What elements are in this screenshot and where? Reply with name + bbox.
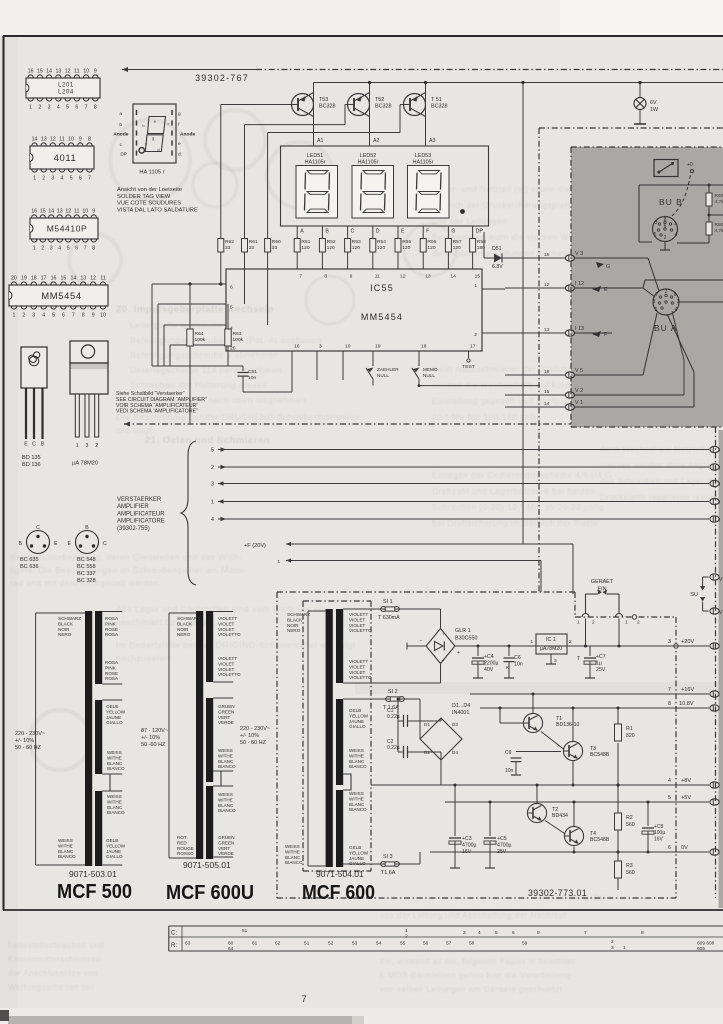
svg-text:R60: R60 [272, 239, 281, 245]
svg-text:51: 51 [304, 941, 310, 947]
svg-text:c: c [145, 141, 147, 146]
svg-text:560: 560 [626, 822, 635, 828]
svg-text:13: 13 [57, 209, 63, 215]
svg-text:61: 61 [252, 941, 258, 947]
svg-text:Einstellung geprueft und na: Einstellung geprueft und nachjustiert. [432, 396, 588, 406]
svg-text:+F (20V): +F (20V) [244, 543, 266, 549]
svg-text:VIOLET: VIOLET [218, 667, 235, 672]
svg-text:NERO: NERO [177, 632, 191, 637]
svg-text:SCHWARZ: SCHWARZ [58, 616, 81, 621]
svg-text:33: 33 [225, 245, 231, 251]
svg-text:VEDI SCHEMA “AMPLIFICATORE”: VEDI SCHEMA “AMPLIFICATORE” [116, 409, 198, 415]
svg-text:BC 328: BC 328 [77, 578, 96, 584]
svg-text:64: 64 [228, 946, 234, 952]
svg-text:+C4: +C4 [484, 654, 494, 660]
svg-text:8: 8 [82, 313, 85, 319]
svg-text:120: 120 [327, 245, 335, 251]
svg-text:C: C [32, 442, 36, 448]
svg-text:R1: R1 [626, 726, 633, 732]
svg-text:R53: R53 [352, 239, 361, 245]
svg-text:YELLOW: YELLOW [106, 843, 126, 848]
svg-text:A2: A2 [373, 138, 379, 144]
svg-text:25V: 25V [596, 667, 606, 673]
svg-text:5: 5 [211, 448, 214, 454]
svg-text:50 - 60 HZ: 50 - 60 HZ [240, 740, 267, 746]
svg-text:1: 1 [623, 945, 626, 951]
svg-text:f. MOS-Bausteinen gelten fu: f. MOS-Bausteinen gelten fuer die Verarb… [380, 971, 571, 980]
svg-text:20: 20 [11, 276, 17, 282]
svg-text:tigste: Die Beschriftungen i: tigste: Die Beschriftungen im Schraubenz… [10, 565, 248, 575]
svg-text:T 51: T 51 [431, 97, 442, 103]
svg-text:I 12: I 12 [575, 281, 584, 287]
svg-text:MCF 600: MCF 600 [302, 882, 375, 904]
svg-text:V 1: V 1 [575, 400, 583, 406]
svg-text:VERT: VERT [218, 715, 230, 720]
svg-text:I: I [719, 465, 720, 470]
svg-text:YELLOW: YELLOW [349, 850, 369, 855]
svg-text:33: 33 [249, 245, 255, 251]
svg-text:RED: RED [177, 840, 187, 845]
svg-text:59: 59 [522, 941, 528, 947]
svg-text:VIOLETTO: VIOLETTO [349, 675, 372, 680]
svg-text:R62: R62 [225, 239, 234, 245]
svg-text:BC328: BC328 [319, 104, 335, 110]
svg-text:MM5454: MM5454 [41, 291, 82, 302]
svg-text:em, wawend av om, folgende Pap: em, wawend av om, folgende Papier in bea… [380, 957, 578, 966]
svg-text:16: 16 [544, 252, 550, 258]
svg-text:V 5: V 5 [575, 368, 583, 374]
svg-text:4: 4 [42, 313, 45, 319]
svg-text:VIOLET: VIOLET [349, 617, 366, 622]
svg-text:D4: D4 [452, 750, 458, 755]
svg-text:VIOLETT: VIOLETT [349, 659, 368, 664]
svg-text:ROSE: ROSE [105, 671, 118, 676]
svg-text:9071-504.01: 9071-504.01 [316, 869, 364, 879]
svg-text:aus der Leitung und Abschal: aus der Leitung und Abschaltung der Nach… [380, 911, 566, 920]
svg-text:6: 6 [75, 246, 78, 252]
svg-text:(39302-755): (39302-755) [117, 526, 150, 532]
svg-text:ROT: ROT [177, 835, 187, 840]
svg-text:D: D [376, 229, 380, 235]
svg-text:BIANCO: BIANCO [285, 860, 303, 865]
svg-text:53: 53 [352, 941, 358, 947]
svg-text:8: 8 [94, 105, 97, 111]
svg-text:JAUNE: JAUNE [349, 856, 364, 861]
svg-text:ROSSO: ROSSO [177, 851, 194, 856]
svg-text:4: 4 [668, 778, 671, 784]
svg-text:BC328: BC328 [375, 104, 391, 110]
svg-text:SU: SU [690, 592, 698, 598]
svg-text:0.22µ: 0.22µ [387, 745, 400, 751]
svg-text:L201: L201 [58, 82, 74, 88]
svg-text:2: 2 [38, 105, 41, 111]
svg-text:5: 5 [230, 305, 233, 311]
svg-text:werden die Wechselteile auf: werden die Wechselteile auf korrekte [431, 380, 586, 390]
svg-text:A3: A3 [429, 138, 435, 144]
svg-text:AMPLIFIER: AMPLIFIER [117, 504, 149, 510]
svg-text:BIANCO: BIANCO [58, 854, 76, 859]
svg-text:10: 10 [82, 209, 88, 215]
svg-text:7: 7 [88, 176, 91, 182]
svg-text:F: F [426, 229, 429, 235]
svg-text:9: 9 [537, 930, 540, 936]
svg-text:Schrauben (0-30) 10 * Min a: Schrauben (0-30) 10 * Min ab 20-30 polig [432, 502, 604, 512]
svg-text:2: 2 [637, 620, 640, 626]
svg-text:GELB: GELB [349, 708, 361, 713]
svg-text:C1: C1 [387, 708, 394, 714]
svg-text:PINK: PINK [105, 621, 117, 626]
svg-text:WEISS: WEISS [218, 792, 233, 797]
svg-text:1W: 1W [650, 107, 659, 113]
svg-text:E: E [604, 287, 608, 293]
svg-text:33: 33 [272, 245, 278, 251]
svg-text:IC55: IC55 [370, 283, 394, 293]
svg-text:12: 12 [65, 69, 71, 75]
svg-text:7: 7 [72, 313, 75, 319]
svg-text:4: 4 [61, 176, 64, 182]
svg-text:+8V: +8V [681, 778, 691, 784]
svg-text:JAUNE: JAUNE [106, 849, 121, 854]
svg-text:ROSA: ROSA [105, 660, 119, 665]
svg-text:560: 560 [626, 870, 635, 876]
svg-text:10: 10 [83, 69, 89, 75]
svg-text:3: 3 [319, 344, 322, 350]
svg-text:BC 548: BC 548 [77, 557, 96, 563]
svg-text:8: 8 [324, 274, 327, 280]
svg-text:2: 2 [41, 246, 44, 252]
svg-text:B: B [19, 541, 23, 547]
svg-text:6: 6 [512, 930, 515, 936]
svg-text:5: 5 [668, 795, 671, 801]
svg-text:3: 3 [463, 930, 466, 936]
svg-text:1: 1 [530, 639, 533, 645]
svg-text:R52: R52 [327, 239, 336, 245]
svg-text:17: 17 [470, 344, 476, 350]
svg-text:2: 2 [592, 620, 595, 626]
svg-text:+/- 10%: +/- 10% [141, 735, 160, 741]
svg-text:2: 2 [22, 313, 25, 319]
svg-text:+/- 10%: +/- 10% [240, 733, 259, 739]
svg-text:3: 3 [554, 658, 557, 664]
svg-text:6: 6 [230, 285, 233, 291]
svg-text:GIALLO: GIALLO [106, 854, 123, 859]
svg-text:609 608: 609 608 [697, 941, 715, 947]
svg-text:G: G [451, 229, 455, 235]
svg-text:IN4001: IN4001 [452, 710, 469, 716]
svg-text:40V: 40V [484, 667, 494, 673]
svg-text:1: 1 [33, 176, 36, 182]
svg-text:4: 4 [57, 105, 60, 111]
svg-text:C: C [351, 229, 355, 235]
svg-text:WITHE: WITHE [349, 796, 364, 801]
svg-text:1: 1 [29, 105, 32, 111]
svg-text:µA78M20: µA78M20 [540, 646, 562, 652]
svg-text:GELB: GELB [106, 704, 118, 709]
svg-text:1: 1 [625, 620, 628, 626]
svg-text:T1: T1 [556, 716, 562, 722]
svg-text:62: 62 [275, 941, 281, 947]
svg-text:GLR 1: GLR 1 [455, 628, 471, 634]
svg-text:3: 3 [86, 443, 89, 449]
svg-text:120: 120 [377, 245, 385, 251]
svg-text:63: 63 [185, 941, 191, 947]
svg-text:WITHE: WITHE [218, 753, 233, 758]
svg-text:+: + [457, 650, 460, 656]
svg-text:BC 636: BC 636 [20, 564, 39, 570]
svg-text:9: 9 [92, 313, 95, 319]
svg-text:Anode: Anode [113, 132, 128, 138]
svg-text:10: 10 [68, 137, 74, 143]
svg-text:14: 14 [32, 137, 38, 143]
svg-text:BIANCO: BIANCO [349, 807, 367, 812]
svg-text:e: e [178, 142, 181, 147]
svg-text:VERSTAERKER: VERSTAERKER [117, 497, 162, 503]
svg-text:11: 11 [100, 276, 105, 282]
svg-text:E: E [68, 541, 72, 547]
svg-text:VIOLET: VIOLET [349, 623, 366, 628]
svg-text:120: 120 [402, 245, 410, 251]
svg-text:13: 13 [425, 274, 431, 280]
svg-text:VERDE: VERDE [218, 851, 234, 856]
svg-text:5: 5 [70, 176, 73, 182]
svg-text:9: 9 [92, 209, 95, 215]
svg-text:9: 9 [79, 137, 82, 143]
svg-text:BLANC: BLANC [58, 849, 74, 854]
svg-text:15: 15 [37, 69, 43, 75]
svg-text:R64: R64 [195, 331, 204, 337]
svg-text:NULL: NULL [423, 373, 435, 378]
svg-text:WITHE: WITHE [107, 799, 122, 804]
svg-text:9: 9 [350, 274, 353, 280]
svg-text:SI 3: SI 3 [383, 854, 393, 860]
svg-text:Schrauben der Halterung loesen: Schrauben der Halterung loesen [130, 380, 267, 390]
svg-text:14: 14 [48, 209, 54, 215]
svg-text:4,7k: 4,7k [715, 228, 723, 234]
svg-text:BLANC: BLANC [349, 802, 365, 807]
svg-text:12: 12 [544, 282, 550, 288]
svg-text:VERDE: VERDE [218, 720, 234, 725]
svg-text:VISTA DAL LATO SALDATURE: VISTA DAL LATO SALDATURE [117, 207, 198, 213]
svg-text:10n: 10n [514, 662, 523, 668]
svg-text:6: 6 [62, 313, 65, 319]
svg-text:~: ~ [442, 659, 445, 664]
svg-text:5: 5 [52, 313, 55, 319]
svg-text:2: 2 [474, 332, 477, 338]
svg-text:NOIR: NOIR [58, 627, 70, 632]
svg-text:GRUEN: GRUEN [218, 835, 235, 840]
svg-text:2: 2 [664, 235, 667, 241]
svg-text:VUE COTE SOUDURES: VUE COTE SOUDURES [117, 201, 181, 207]
svg-text:WITHE: WITHE [107, 755, 122, 760]
svg-text:LED51: LED51 [307, 153, 323, 159]
svg-text:10: 10 [345, 344, 351, 350]
svg-text:3: 3 [48, 105, 51, 111]
svg-text:R56: R56 [427, 239, 436, 245]
svg-text:7: 7 [656, 292, 659, 298]
svg-text:a: a [119, 112, 122, 117]
svg-text:G: G [606, 264, 610, 270]
svg-text:Wartungsarbeiten bei: Wartungsarbeiten bei [8, 983, 94, 992]
svg-text:6: 6 [664, 224, 667, 230]
svg-text:2: 2 [665, 289, 668, 295]
svg-text:120: 120 [427, 245, 435, 251]
svg-text:58: 58 [469, 941, 475, 947]
svg-text:WEISS: WEISS [107, 750, 122, 755]
svg-text:AMPLIFICATORE: AMPLIFICATORE [117, 519, 165, 525]
svg-text:TEST: TEST [462, 364, 475, 370]
svg-text:GIALLO: GIALLO [349, 861, 366, 866]
svg-text:BLANC: BLANC [218, 759, 234, 764]
svg-text:4: 4 [211, 517, 214, 523]
svg-text:C9: C9 [505, 750, 512, 756]
svg-text:2: 2 [95, 443, 98, 449]
svg-text:0.22µ: 0.22µ [387, 714, 400, 720]
svg-text:HA1105r: HA1105r [305, 160, 326, 166]
svg-text:6: 6 [674, 292, 677, 298]
svg-text:VERT: VERT [218, 846, 230, 851]
svg-text:GRUEN: GRUEN [218, 704, 235, 709]
svg-text:1µ: 1µ [596, 660, 602, 666]
svg-text:MCF 600U: MCF 600U [166, 882, 254, 904]
svg-text:I: I [719, 517, 720, 522]
svg-text:+C7: +C7 [596, 654, 606, 660]
svg-text:WEISS: WEISS [58, 838, 73, 843]
svg-text:BLANC: BLANC [107, 761, 123, 766]
svg-text:13: 13 [41, 137, 47, 143]
svg-text:3: 3 [51, 176, 54, 182]
svg-text:BD 135: BD 135 [22, 455, 41, 461]
svg-text:T4: T4 [590, 831, 596, 837]
svg-text:T 630mA: T 630mA [378, 615, 400, 621]
svg-text:ROUGE: ROUGE [177, 846, 194, 851]
svg-text:7: 7 [84, 246, 87, 252]
svg-text:4: 4 [58, 246, 61, 252]
svg-text:D51: D51 [492, 246, 502, 252]
svg-text:WEISS: WEISS [285, 844, 300, 849]
svg-text:WITHE: WITHE [349, 753, 364, 758]
svg-text:R63: R63 [233, 331, 242, 337]
svg-text:B: B [325, 229, 329, 235]
svg-text:ROSA: ROSA [105, 616, 119, 621]
svg-text:18: 18 [421, 344, 427, 350]
svg-text:1: 1 [13, 313, 16, 319]
svg-text:10: 10 [100, 313, 106, 319]
svg-text:3: 3 [211, 482, 214, 488]
svg-text:A1: A1 [317, 138, 323, 144]
svg-text:VIOLETT: VIOLETT [218, 656, 237, 661]
svg-text:BLANC: BLANC [107, 805, 123, 810]
svg-text:R61: R61 [249, 239, 258, 245]
svg-text:BC 635: BC 635 [20, 557, 39, 563]
svg-text:VIOLET: VIOLET [349, 670, 366, 675]
svg-text:11: 11 [59, 137, 64, 143]
svg-text:D3: D3 [452, 722, 458, 727]
svg-text:1: 1 [474, 283, 477, 289]
svg-text:BIANCO: BIANCO [218, 808, 236, 813]
svg-text:13: 13 [544, 327, 550, 333]
svg-text:16V: 16V [654, 836, 664, 842]
svg-text:R:: R: [171, 942, 177, 949]
svg-text:MM5454: MM5454 [361, 312, 403, 322]
svg-text:JAUNE: JAUNE [349, 719, 364, 724]
svg-text:15: 15 [40, 209, 46, 215]
svg-text:wie folgt:: wie folgt: [115, 425, 155, 435]
svg-text:WITHE: WITHE [218, 797, 233, 802]
svg-text:11: 11 [375, 274, 380, 280]
svg-text:BLACK: BLACK [287, 617, 303, 622]
svg-text:−: − [420, 639, 423, 645]
svg-text:ZAEHLER: ZAEHLER [377, 367, 399, 372]
svg-text:messen werden ohne Abgleich: messen werden ohne Abgleich [600, 461, 722, 470]
svg-text:3: 3 [653, 299, 656, 305]
svg-text:VIOLETT: VIOLETT [218, 616, 237, 621]
svg-text:b: b [119, 122, 122, 128]
svg-text:BIANCO: BIANCO [107, 810, 125, 815]
svg-text:C6: C6 [514, 655, 521, 661]
svg-text:5: 5 [654, 232, 657, 238]
svg-text:55: 55 [400, 941, 406, 947]
svg-text:12: 12 [90, 276, 96, 282]
svg-text:ROSA: ROSA [105, 632, 119, 637]
svg-text:E: E [24, 442, 28, 448]
svg-text:20. Impulsgeberplatte wechseln: 20. Impulsgeberplatte wechseln [116, 304, 274, 315]
svg-text:VIOLETT: VIOLETT [349, 612, 368, 617]
svg-text:LED52: LED52 [360, 153, 376, 159]
svg-text:g: g [152, 136, 154, 141]
svg-text:V 2: V 2 [575, 388, 583, 394]
svg-text:GREEN: GREEN [218, 709, 234, 714]
svg-text:Druckplatte reparieren lasse: Druckplatte reparieren lassen. [600, 493, 722, 502]
svg-text:21. Oelen und Schmieren: 21. Oelen und Schmieren [145, 435, 270, 446]
svg-text:T1.6A: T1.6A [381, 870, 396, 876]
svg-text:100k: 100k [195, 337, 206, 343]
svg-text:52: 52 [328, 941, 334, 947]
svg-text:M54410P: M54410P [47, 224, 88, 234]
svg-text:GIALLO: GIALLO [106, 720, 123, 725]
svg-text:VIOLET: VIOLET [349, 664, 366, 669]
svg-text:WITHE: WITHE [285, 849, 300, 854]
svg-text:39302-767: 39302-767 [195, 73, 249, 83]
svg-text:8: 8 [92, 246, 95, 252]
svg-text:SCHWARZ: SCHWARZ [287, 612, 310, 617]
svg-text:A: A [300, 229, 304, 235]
svg-text:4700µ: 4700µ [497, 842, 512, 848]
svg-text:57: 57 [446, 941, 452, 947]
svg-text:5: 5 [67, 246, 70, 252]
svg-text:SCHWARZ: SCHWARZ [177, 616, 200, 621]
svg-text:DP: DP [120, 152, 127, 158]
svg-text:6: 6 [75, 105, 78, 111]
svg-text:13: 13 [80, 276, 86, 282]
svg-text:DP: DP [476, 229, 484, 235]
svg-text:BU B: BU B [659, 197, 683, 207]
svg-text:10.8V: 10.8V [679, 701, 694, 707]
svg-text:7: 7 [584, 930, 587, 936]
svg-text:4: 4 [675, 232, 678, 238]
svg-text:D1: D1 [424, 722, 430, 727]
svg-text:14: 14 [450, 274, 456, 280]
svg-text:Kontermutterschluessel: Kontermutterschluessel [8, 955, 103, 964]
svg-text:NOIR: NOIR [287, 623, 299, 628]
svg-text:56: 56 [423, 941, 429, 947]
svg-text:18: 18 [31, 276, 37, 282]
svg-text:MEMO: MEMO [423, 367, 438, 372]
svg-text:17: 17 [41, 276, 47, 282]
svg-text:50 - 60 HZ: 50 - 60 HZ [15, 745, 42, 751]
svg-text:BLACK: BLACK [177, 621, 193, 626]
svg-text:13: 13 [55, 69, 61, 75]
svg-text:39302-773.01: 39302-773.01 [528, 888, 587, 898]
